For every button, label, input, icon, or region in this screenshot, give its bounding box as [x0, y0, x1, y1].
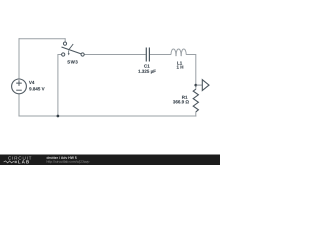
value 9.845 V [29, 87, 44, 90]
label C1 [144, 64, 149, 67]
wire switch throw1 drop [64, 38, 66, 42]
capacitor C1 left plate [145, 48, 147, 62]
switch SW3 throw2 circle [62, 53, 65, 56]
switch SW3 lever [62, 47, 82, 54]
value 366.9 ohm [173, 100, 189, 103]
voltage source V4 [12, 79, 27, 94]
switch SW3 common circle [81, 53, 84, 56]
capacitor C1 right plate [148, 48, 150, 62]
wire top rail [19, 38, 65, 40]
watermark line 1 [47, 156, 77, 159]
watermark logo square [15, 161, 17, 163]
watermark line 2 [47, 160, 90, 163]
label SW3 [67, 60, 77, 63]
wire switch common to capacitor [84, 54, 146, 56]
value 1.325 uF [138, 70, 155, 74]
wire inductor to right corner [186, 55, 196, 86]
probe stub [196, 84, 203, 86]
watermark bar [0, 155, 220, 166]
inductor L1 coil [171, 49, 186, 56]
label L1 [177, 62, 182, 65]
watermark logo squiggle [4, 161, 15, 163]
wire bottom rail [18, 115, 196, 117]
value 1 H [177, 66, 183, 69]
switch SW3 throw1 circle [63, 42, 66, 45]
switch SW3 actuator tick [69, 44, 73, 50]
wire capacitor to inductor [150, 54, 171, 56]
label V4 [29, 81, 34, 84]
wire switch throw2 stub and middle vertical [58, 55, 62, 117]
watermark logo LAB [18, 160, 29, 163]
wire right vertical upper resistor lead [195, 85, 197, 90]
junction middle-bottom [57, 115, 60, 118]
watermark logo CIRCUIT [8, 156, 31, 159]
resistor R1 zigzag [193, 89, 198, 112]
wire left vertical lower [18, 94, 20, 116]
wire left vertical upper [18, 38, 20, 79]
label R1 [182, 96, 187, 99]
switch SW3 actuator arrow [68, 50, 70, 53]
wire right vertical lower resistor lead [195, 112, 197, 117]
probe output triangle [202, 80, 209, 91]
junction right probe tap [194, 84, 197, 87]
